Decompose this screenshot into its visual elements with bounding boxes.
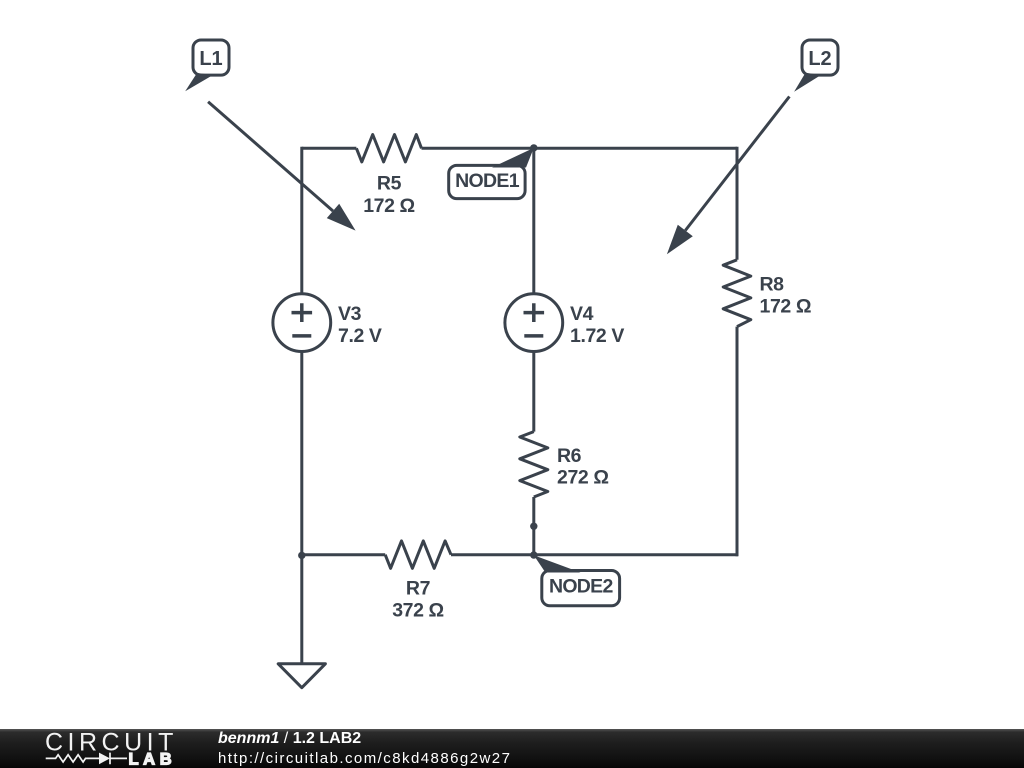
svg-text:172 Ω: 172 Ω	[760, 296, 812, 318]
svg-text:NODE1: NODE1	[455, 170, 520, 192]
svg-text:272 Ω: 272 Ω	[557, 467, 609, 489]
svg-text:http://circuitlab.com/c8kd4886: http://circuitlab.com/c8kd4886g2w27	[218, 750, 511, 767]
svg-text:LAB: LAB	[129, 750, 177, 768]
svg-text:R8: R8	[760, 274, 785, 296]
svg-text:172 Ω: 172 Ω	[363, 195, 415, 217]
svg-text:R7: R7	[406, 578, 430, 600]
svg-text:7.2 V: 7.2 V	[338, 325, 382, 347]
svg-text:372 Ω: 372 Ω	[392, 600, 444, 622]
svg-text:1.72 V: 1.72 V	[570, 325, 624, 347]
svg-text:R5: R5	[377, 172, 402, 194]
svg-text:V4: V4	[570, 303, 594, 325]
svg-text:L2: L2	[808, 48, 831, 70]
svg-text:L1: L1	[199, 48, 222, 70]
svg-text:R6: R6	[557, 445, 582, 467]
svg-text:bennm1 / 1.2 LAB2: bennm1 / 1.2 LAB2	[218, 730, 361, 747]
svg-text:V3: V3	[338, 303, 362, 325]
svg-text:NODE2: NODE2	[549, 576, 614, 598]
